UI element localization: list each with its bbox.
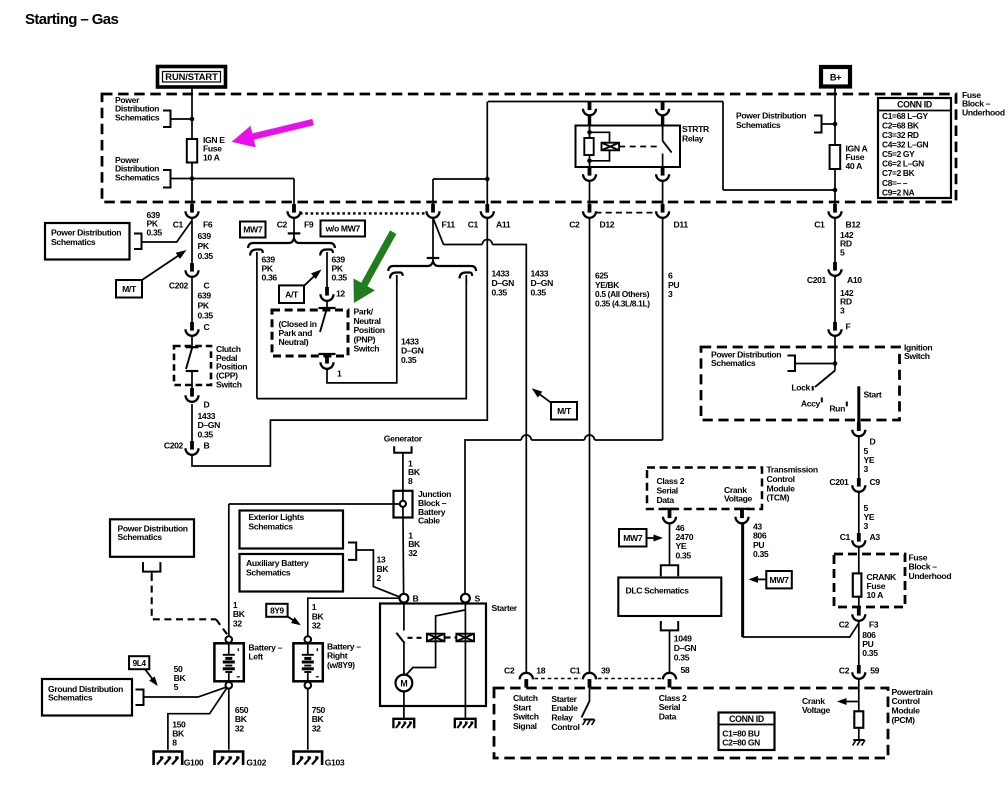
svg-text:0.35: 0.35 <box>198 310 214 320</box>
svg-text:C9: C9 <box>870 477 881 487</box>
svg-text:MW7: MW7 <box>770 575 790 585</box>
svg-text:0.35 (4.3L/8.1L): 0.35 (4.3L/8.1L) <box>595 299 650 309</box>
svg-text:8Y9: 8Y9 <box>270 606 284 615</box>
svg-text:0.35: 0.35 <box>332 273 348 283</box>
svg-text:G102: G102 <box>246 757 266 767</box>
svg-text:C: C <box>204 322 210 332</box>
svg-text:C2: C2 <box>839 665 850 675</box>
svg-text:F9: F9 <box>304 219 314 229</box>
svg-text:12: 12 <box>336 288 345 298</box>
svg-text:0.35: 0.35 <box>862 648 878 658</box>
svg-text:Underhood: Underhood <box>962 108 1005 118</box>
svg-text:C2=80 GN: C2=80 GN <box>722 737 760 747</box>
svg-text:3: 3 <box>668 289 673 299</box>
svg-text:18: 18 <box>536 665 545 675</box>
svg-text:Generator: Generator <box>384 433 423 443</box>
svg-text:Start: Start <box>864 390 882 400</box>
svg-text:MW7: MW7 <box>623 533 643 543</box>
svg-text:32: 32 <box>233 618 242 628</box>
svg-text:Signal: Signal <box>513 721 537 731</box>
svg-text:A3: A3 <box>870 532 881 542</box>
svg-text:A11: A11 <box>496 219 511 229</box>
svg-text:1433: 1433 <box>492 268 510 278</box>
svg-text:32: 32 <box>312 723 321 733</box>
svg-text:D: D <box>870 436 876 446</box>
svg-text:C2: C2 <box>569 219 580 229</box>
svg-text:Schematics: Schematics <box>115 113 160 123</box>
svg-text:PK: PK <box>198 241 210 251</box>
svg-text:Starting – Gas: Starting – Gas <box>25 11 119 28</box>
svg-text:B: B <box>204 441 210 451</box>
svg-text:D11: D11 <box>674 219 689 229</box>
svg-text:Voltage: Voltage <box>802 705 831 715</box>
svg-text:C9=2 NA: C9=2 NA <box>882 187 915 197</box>
svg-text:C1: C1 <box>840 532 851 542</box>
svg-text:Schematics: Schematics <box>246 567 291 577</box>
svg-text:F6: F6 <box>203 219 213 229</box>
svg-text:Switch: Switch <box>904 351 930 361</box>
svg-text:Lock: Lock <box>791 382 810 392</box>
svg-text:10 A: 10 A <box>203 153 220 163</box>
svg-text:8: 8 <box>172 738 177 748</box>
svg-text:MW7: MW7 <box>243 225 263 235</box>
svg-text:D–GN: D–GN <box>492 278 515 288</box>
svg-text:Left: Left <box>248 652 263 662</box>
svg-text:Switch: Switch <box>216 379 242 389</box>
svg-text:0.35: 0.35 <box>753 549 769 559</box>
svg-text:A10: A10 <box>847 275 862 285</box>
svg-text:58: 58 <box>681 665 690 675</box>
svg-text:0.35: 0.35 <box>674 652 690 662</box>
svg-text:G100: G100 <box>184 757 204 767</box>
svg-text:(TCM): (TCM) <box>767 493 790 503</box>
svg-text:Relay: Relay <box>682 133 704 143</box>
svg-text:(PCM): (PCM) <box>892 715 916 725</box>
svg-text:D–GN: D–GN <box>531 278 554 288</box>
svg-text:Schematics: Schematics <box>736 120 781 130</box>
svg-text:D: D <box>204 400 210 410</box>
svg-text:C7=2 BK: C7=2 BK <box>882 168 915 178</box>
svg-text:0.35: 0.35 <box>198 429 214 439</box>
svg-text:0.35: 0.35 <box>401 355 417 365</box>
svg-text:F3: F3 <box>869 620 879 630</box>
svg-text:Data: Data <box>657 495 675 505</box>
svg-text:C4=32 L–GN: C4=32 L–GN <box>882 140 929 150</box>
svg-text:G103: G103 <box>325 757 345 767</box>
svg-text:9L4: 9L4 <box>133 659 147 668</box>
svg-text:S: S <box>475 594 481 604</box>
svg-text:0.35: 0.35 <box>492 287 508 297</box>
svg-text:C1: C1 <box>468 219 479 229</box>
svg-text:Control: Control <box>551 722 579 732</box>
svg-text:40 A: 40 A <box>846 161 863 171</box>
svg-text:0.35: 0.35 <box>198 251 214 261</box>
svg-text:Schematics: Schematics <box>51 237 96 247</box>
svg-text:59: 59 <box>870 665 879 675</box>
svg-text:C201: C201 <box>807 275 827 285</box>
svg-text:C202: C202 <box>164 441 184 451</box>
svg-text:PK: PK <box>198 300 210 310</box>
svg-text:0.35: 0.35 <box>676 550 692 560</box>
svg-text:5: 5 <box>840 247 845 257</box>
svg-text:Schematics: Schematics <box>711 358 756 368</box>
svg-text:32: 32 <box>235 723 244 733</box>
svg-text:C2: C2 <box>504 665 515 675</box>
svg-text:M/T: M/T <box>557 406 572 416</box>
svg-text:C1=68 L–GY: C1=68 L–GY <box>882 111 929 121</box>
svg-text:B12: B12 <box>846 219 861 229</box>
svg-text:A/T: A/T <box>285 289 299 299</box>
svg-text:C3=32 RD: C3=32 RD <box>882 130 919 140</box>
svg-text:639: 639 <box>198 290 212 300</box>
svg-text:D12: D12 <box>600 219 615 229</box>
svg-text:C8=– –: C8=– – <box>882 178 908 188</box>
svg-text:RUN/START: RUN/START <box>165 71 218 82</box>
svg-text:0.36: 0.36 <box>262 273 278 283</box>
svg-text:C1: C1 <box>570 665 581 675</box>
svg-text:32: 32 <box>312 621 321 631</box>
svg-text:CONN ID: CONN ID <box>729 714 764 724</box>
svg-text:Data: Data <box>659 712 677 722</box>
svg-text:Accy: Accy <box>801 399 821 409</box>
svg-text:Schematics: Schematics <box>248 521 293 531</box>
svg-text:F11: F11 <box>442 219 456 229</box>
svg-text:5: 5 <box>174 682 179 692</box>
svg-text:32: 32 <box>408 548 417 558</box>
svg-text:0.35: 0.35 <box>147 227 163 237</box>
svg-text:C6=2 L–GN: C6=2 L–GN <box>882 159 924 169</box>
svg-text:F: F <box>846 322 851 332</box>
svg-text:C201: C201 <box>829 477 849 487</box>
svg-text:CONN ID: CONN ID <box>897 100 932 110</box>
svg-text:3: 3 <box>840 305 845 315</box>
svg-text:C: C <box>204 281 210 291</box>
svg-text:Run: Run <box>829 404 845 414</box>
svg-text:Underhood: Underhood <box>909 571 952 581</box>
svg-text:Schematics: Schematics <box>118 532 163 542</box>
svg-text:C1: C1 <box>173 219 184 229</box>
svg-text:Voltage: Voltage <box>724 494 753 504</box>
svg-text:Neutral): Neutral) <box>279 337 309 347</box>
svg-text:0.35: 0.35 <box>531 287 547 297</box>
svg-text:C2: C2 <box>839 620 850 630</box>
svg-text:Schematics: Schematics <box>115 173 160 183</box>
svg-text:1433: 1433 <box>531 268 549 278</box>
svg-text:DLC Schematics: DLC Schematics <box>626 586 690 596</box>
svg-text:639: 639 <box>198 231 212 241</box>
svg-text:1: 1 <box>337 369 342 379</box>
svg-text:8: 8 <box>408 476 413 486</box>
svg-text:Switch: Switch <box>354 344 380 354</box>
svg-text:Power Distribution: Power Distribution <box>51 227 121 237</box>
svg-text:C5=2 GY: C5=2 GY <box>882 149 915 159</box>
svg-text:39: 39 <box>601 665 610 675</box>
svg-text:3: 3 <box>864 464 869 474</box>
svg-text:Starter: Starter <box>492 603 518 613</box>
svg-text:C1: C1 <box>814 219 825 229</box>
svg-text:C2=68 BK: C2=68 BK <box>882 120 919 130</box>
svg-text:M: M <box>400 679 407 689</box>
svg-text:3: 3 <box>864 521 869 531</box>
svg-text:Schematics: Schematics <box>48 693 93 703</box>
svg-text:Cable: Cable <box>418 516 440 526</box>
svg-text:C202: C202 <box>169 281 189 291</box>
svg-text:2: 2 <box>377 573 382 583</box>
svg-text:w/o MW7: w/o MW7 <box>325 224 361 234</box>
svg-text:M/T: M/T <box>122 284 137 294</box>
svg-text:(w/8Y9): (w/8Y9) <box>327 660 355 670</box>
svg-text:B+: B+ <box>830 73 841 83</box>
svg-text:C2: C2 <box>277 219 288 229</box>
svg-text:B: B <box>413 594 419 604</box>
svg-text:10 A: 10 A <box>867 590 884 600</box>
